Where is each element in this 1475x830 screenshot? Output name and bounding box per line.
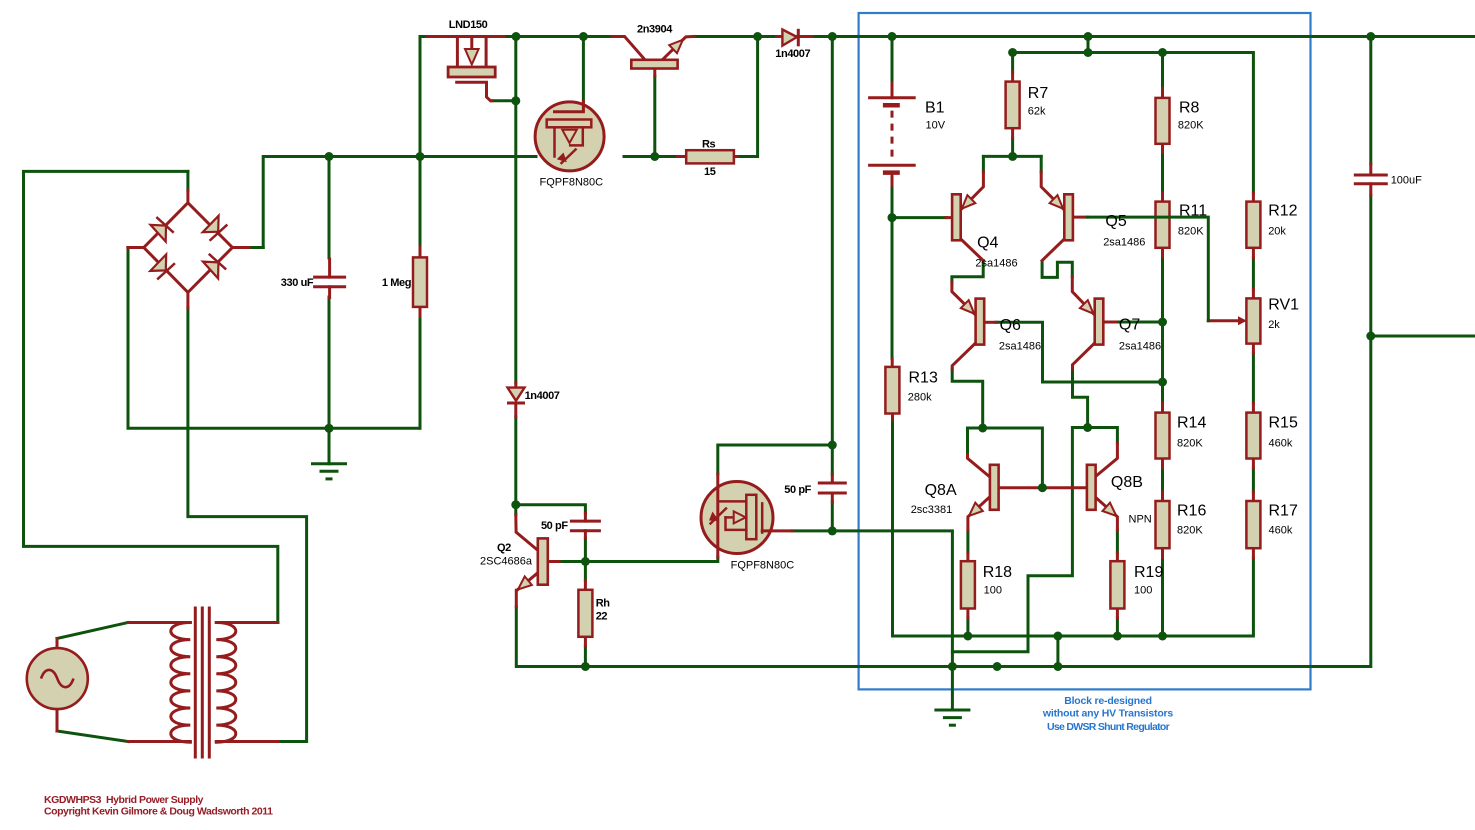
svg-text:820K: 820K	[1177, 438, 1203, 450]
svg-text:R11: R11	[1179, 203, 1207, 220]
svg-text:Q6: Q6	[1000, 317, 1021, 334]
svg-text:R12: R12	[1268, 203, 1297, 220]
svg-text:Block re-designed: Block re-designed	[1064, 695, 1152, 707]
svg-text:20k: 20k	[1268, 226, 1286, 238]
svg-text:50 pF: 50 pF	[784, 484, 811, 496]
svg-text:R17: R17	[1269, 503, 1298, 520]
svg-text:2sa1486: 2sa1486	[975, 258, 1017, 270]
svg-text:2sc3381: 2sc3381	[911, 504, 953, 516]
svg-text:330 uF: 330 uF	[281, 277, 314, 289]
svg-text:2n3904: 2n3904	[637, 24, 673, 36]
svg-text:R15: R15	[1269, 415, 1298, 432]
svg-text:R7: R7	[1028, 85, 1049, 102]
svg-text:820K: 820K	[1178, 120, 1204, 132]
svg-text:Q8A: Q8A	[925, 482, 957, 499]
svg-text:Q5: Q5	[1105, 213, 1126, 230]
svg-text:Copyright Kevin Gilmore & Doug: Copyright Kevin Gilmore & Doug Wadsworth…	[44, 806, 273, 818]
svg-text:2SC4686a: 2SC4686a	[480, 556, 533, 568]
svg-text:Rh: Rh	[596, 598, 611, 610]
svg-text:2sa1486: 2sa1486	[1103, 237, 1145, 249]
svg-text:R13: R13	[909, 370, 938, 387]
svg-text:1 Meg: 1 Meg	[382, 277, 411, 289]
svg-text:10V: 10V	[926, 120, 946, 132]
svg-text:Rs: Rs	[702, 139, 716, 151]
svg-text:Q4: Q4	[977, 235, 998, 252]
svg-text:Q8B: Q8B	[1111, 474, 1143, 491]
svg-text:460k: 460k	[1269, 525, 1293, 537]
svg-text:100: 100	[1134, 585, 1152, 597]
svg-text:RV1: RV1	[1268, 297, 1299, 314]
svg-text:1n4007: 1n4007	[775, 48, 810, 60]
svg-text:2sa1486: 2sa1486	[1119, 341, 1161, 353]
svg-text:LND150: LND150	[449, 19, 488, 31]
svg-text:Q7: Q7	[1119, 317, 1140, 334]
svg-text:460k: 460k	[1269, 438, 1293, 450]
svg-text:1n4007: 1n4007	[525, 390, 560, 402]
svg-text:Q2: Q2	[497, 542, 511, 554]
svg-text:820K: 820K	[1177, 525, 1203, 537]
svg-text:Use DWSR Shunt Regulator: Use DWSR Shunt Regulator	[1047, 721, 1170, 733]
svg-text:100uF: 100uF	[1391, 174, 1422, 186]
svg-text:R8: R8	[1179, 100, 1200, 117]
svg-text:2k: 2k	[1268, 319, 1280, 331]
svg-text:without any HV Transistors: without any HV Transistors	[1042, 708, 1174, 720]
svg-text:820K: 820K	[1178, 226, 1204, 238]
svg-text:62k: 62k	[1028, 106, 1046, 118]
svg-text:FQPF8N80C: FQPF8N80C	[731, 560, 795, 572]
svg-text:NPN: NPN	[1129, 514, 1152, 526]
svg-text:R18: R18	[983, 564, 1012, 581]
svg-text:22: 22	[596, 611, 608, 623]
svg-text:FQPF8N80C: FQPF8N80C	[540, 177, 604, 189]
svg-text:B1: B1	[925, 100, 945, 117]
svg-text:2sa1486: 2sa1486	[999, 341, 1041, 353]
svg-text:280k: 280k	[908, 392, 932, 404]
svg-text:R19: R19	[1134, 564, 1163, 581]
svg-text:100: 100	[984, 585, 1002, 597]
svg-text:50 pF: 50 pF	[541, 520, 568, 532]
svg-text:KGDWHPS3 Hybrid Power Supply: KGDWHPS3 Hybrid Power Supply	[44, 794, 204, 806]
svg-text:R14: R14	[1177, 415, 1206, 432]
svg-text:R16: R16	[1177, 503, 1206, 520]
svg-text:15: 15	[704, 166, 716, 178]
